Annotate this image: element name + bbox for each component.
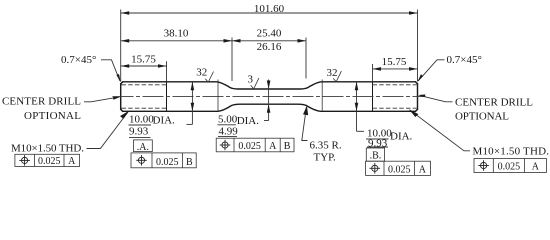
feature control frame pos 0.025 A bottom right (474, 159, 546, 173)
svg-text:.A.: .A. (137, 142, 149, 153)
svg-text:9.93: 9.93 (129, 126, 149, 138)
surface finish 3 middle (248, 74, 259, 89)
extension line left end (120, 10, 122, 82)
svg-text:4.99: 4.99 (219, 126, 239, 138)
dia dimension 10.00/9.93 left (129, 82, 195, 138)
surface finish 32 left (196, 66, 213, 82)
datum B box (366, 148, 384, 161)
svg-text:10.00: 10.00 (129, 114, 154, 126)
svg-text:0.7×45°: 0.7×45° (61, 54, 96, 66)
feature control frame pos 0.025 A B (216, 138, 294, 152)
fillet tangent line left (217, 80, 219, 112)
extension line right end (417, 10, 419, 82)
label M10x1.50 THD. left (11, 111, 129, 155)
dimension 15.75 right (373, 56, 418, 71)
surface finish 32 right (327, 67, 342, 82)
svg-text:0.7×45°: 0.7×45° (447, 54, 482, 66)
svg-text:DIA.: DIA. (153, 115, 176, 127)
dimension 25.40 / 26.16 (232, 28, 306, 54)
svg-text:A: A (419, 164, 427, 175)
svg-text:5.00: 5.00 (218, 113, 238, 125)
svg-text:A: A (532, 162, 540, 173)
svg-text:0.025: 0.025 (238, 141, 261, 152)
svg-text:26.16: 26.16 (257, 41, 282, 53)
extension line gauge left (231, 38, 233, 82)
chamfer note 0.7x45 right (418, 54, 482, 82)
svg-text:32: 32 (327, 67, 338, 79)
svg-text:TYP.: TYP. (314, 152, 337, 164)
svg-text:B: B (186, 157, 193, 168)
svg-text:0.025: 0.025 (156, 157, 179, 168)
fillet tangent line right (321, 80, 323, 112)
svg-text:B: B (284, 141, 291, 152)
svg-text:CENTER DRILL: CENTER DRILL (2, 96, 81, 108)
thread root dashed lines left (122, 85, 167, 108)
label CENTER DRILL OPTIONAL right (418, 94, 533, 122)
svg-text:0.025: 0.025 (498, 162, 521, 173)
svg-text:A: A (269, 141, 277, 152)
extension line thread end left (166, 61, 168, 82)
thread end line right (372, 82, 374, 112)
feature control frame pos 0.025 A bottom left (15, 154, 80, 167)
dimension 38.10 (121, 28, 232, 43)
svg-text:.B.: .B. (370, 150, 382, 161)
radius note 6.35 R. TYP. (302, 106, 342, 164)
dia dimension 5.00/4.99 middle (218, 80, 271, 138)
thread root dashed lines right (373, 85, 417, 108)
svg-text:15.75: 15.75 (131, 53, 156, 65)
dimension 15.75 left (121, 53, 167, 67)
svg-text:OPTIONAL: OPTIONAL (24, 110, 81, 122)
svg-text:6.35 R.: 6.35 R. (310, 140, 342, 152)
svg-text:32: 32 (196, 66, 207, 78)
svg-text:A: A (68, 156, 76, 167)
svg-text:OPTIONAL: OPTIONAL (455, 111, 509, 123)
dimension 101.60 (121, 3, 418, 15)
centerline (113, 96, 426, 98)
feature control frame pos 0.025 B (131, 153, 196, 168)
part outline (121, 82, 418, 112)
svg-text:0.025: 0.025 (38, 156, 61, 167)
svg-text:DIA.: DIA. (237, 115, 260, 127)
dia dimension 10.00/9.93 right (355, 82, 413, 150)
svg-text:DIA.: DIA. (390, 131, 413, 143)
chamfer note 0.7x45 left (61, 54, 121, 82)
svg-text:25.40: 25.40 (257, 28, 282, 40)
svg-text:CENTER DRILL: CENTER DRILL (455, 97, 533, 109)
datum A box (134, 140, 153, 153)
svg-text:38.10: 38.10 (164, 28, 189, 40)
label M10x1.50 THD. right (409, 109, 549, 157)
feature control frame pos 0.025 A right middle (366, 161, 431, 175)
svg-text:3: 3 (248, 74, 254, 86)
svg-text:M10×1.50 THD.: M10×1.50 THD. (473, 145, 550, 157)
svg-text:101.60: 101.60 (254, 3, 285, 15)
svg-text:M10×1.50 THD.: M10×1.50 THD. (11, 143, 84, 155)
extension line thread end right (372, 64, 374, 82)
svg-text:15.75: 15.75 (382, 56, 407, 68)
svg-text:0.025: 0.025 (388, 164, 411, 175)
thread end line left (166, 82, 168, 112)
svg-text:9.93: 9.93 (368, 137, 388, 149)
extension line gauge right (305, 38, 307, 79)
label CENTER DRILL OPTIONAL left (2, 96, 121, 122)
